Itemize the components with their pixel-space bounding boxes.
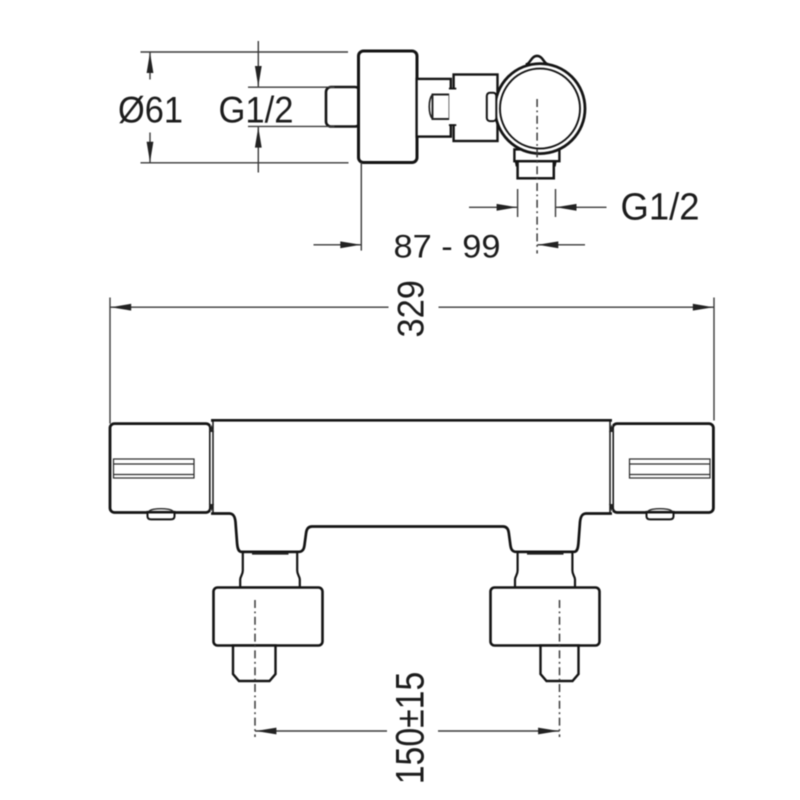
right tail pipe xyxy=(541,646,579,682)
left tail center line (dash-dot) xyxy=(254,600,256,737)
outlet pipe G1/2 xyxy=(518,161,554,178)
left eccentric neck xyxy=(240,552,300,588)
dimension 87-99: extension line from body xyxy=(360,163,362,251)
dimension 87-99: right arrow xyxy=(537,244,585,246)
left seam flare marks xyxy=(209,425,214,432)
connector piece 1 xyxy=(417,79,451,137)
right cap button xyxy=(647,513,674,520)
svg-text:150±15: 150±15 xyxy=(388,672,432,785)
nipple extension lines xyxy=(248,86,335,88)
dimension G1/2 top: upper arrow (points down) xyxy=(257,41,259,87)
dimension 150±15: line left part xyxy=(255,730,387,732)
right union nut xyxy=(491,588,600,646)
throat between connectors xyxy=(449,89,456,124)
seam white separators xyxy=(210,422,212,512)
svg-text:G1/2: G1/2 xyxy=(219,90,294,131)
right tail center line (dash-dot) xyxy=(559,600,561,737)
right neck collar seam xyxy=(527,553,564,555)
right end cap xyxy=(613,424,714,513)
safety stop clip on knob left xyxy=(487,93,497,121)
center line of outlet (dash-dot) xyxy=(536,99,538,254)
dimension Ø61: upper arrow xyxy=(149,52,151,80)
right cap stripes xyxy=(630,459,711,478)
dimension 87-99: left arrow xyxy=(314,244,362,246)
left cap button xyxy=(148,513,175,520)
left tail pipe xyxy=(233,646,276,682)
thermostat knob outer circle xyxy=(495,64,585,154)
outlet flange under knob xyxy=(514,149,559,161)
left end cap xyxy=(110,424,210,513)
main bar body xyxy=(212,420,610,552)
pipe top corner flares xyxy=(516,162,517,167)
dimension Ø61: top extension line xyxy=(141,51,349,53)
dimension 329: line left part xyxy=(110,306,389,308)
inner nipple inside connector xyxy=(433,95,450,120)
right seam flare marks xyxy=(609,425,614,432)
dimension 329: right extension line xyxy=(713,298,715,421)
wall nipple G1/2 (left inlet) xyxy=(326,87,360,127)
dimension G1/2 outlet: left arrow xyxy=(469,206,518,208)
main body block xyxy=(359,51,418,163)
dimension G1/2 outlet: extension lines xyxy=(517,189,519,217)
dimension 150±15: line right part xyxy=(438,730,560,732)
right eccentric neck xyxy=(515,552,575,588)
left cap stripes xyxy=(114,459,195,478)
connector piece 2 xyxy=(454,75,498,142)
left neck collar seam xyxy=(252,553,289,555)
dimension 329: line right part xyxy=(439,306,715,308)
dimension G1/2 top: lower arrow (points up) xyxy=(257,127,259,173)
top index tab on knob xyxy=(527,56,548,72)
svg-text:G1/2: G1/2 xyxy=(621,187,700,229)
dimension 329: left extension line xyxy=(109,298,111,424)
svg-text:87 - 99: 87 - 99 xyxy=(394,229,501,265)
thermostat knob inner circle xyxy=(500,69,580,149)
svg-text:329: 329 xyxy=(390,280,431,338)
dimension Ø61: bottom extension line xyxy=(141,162,349,164)
dimension Ø61: lower arrow xyxy=(149,133,151,163)
left union nut xyxy=(214,588,323,646)
dimension G1/2 outlet: right arrow xyxy=(556,206,607,208)
svg-text:Ø61: Ø61 xyxy=(118,90,183,131)
